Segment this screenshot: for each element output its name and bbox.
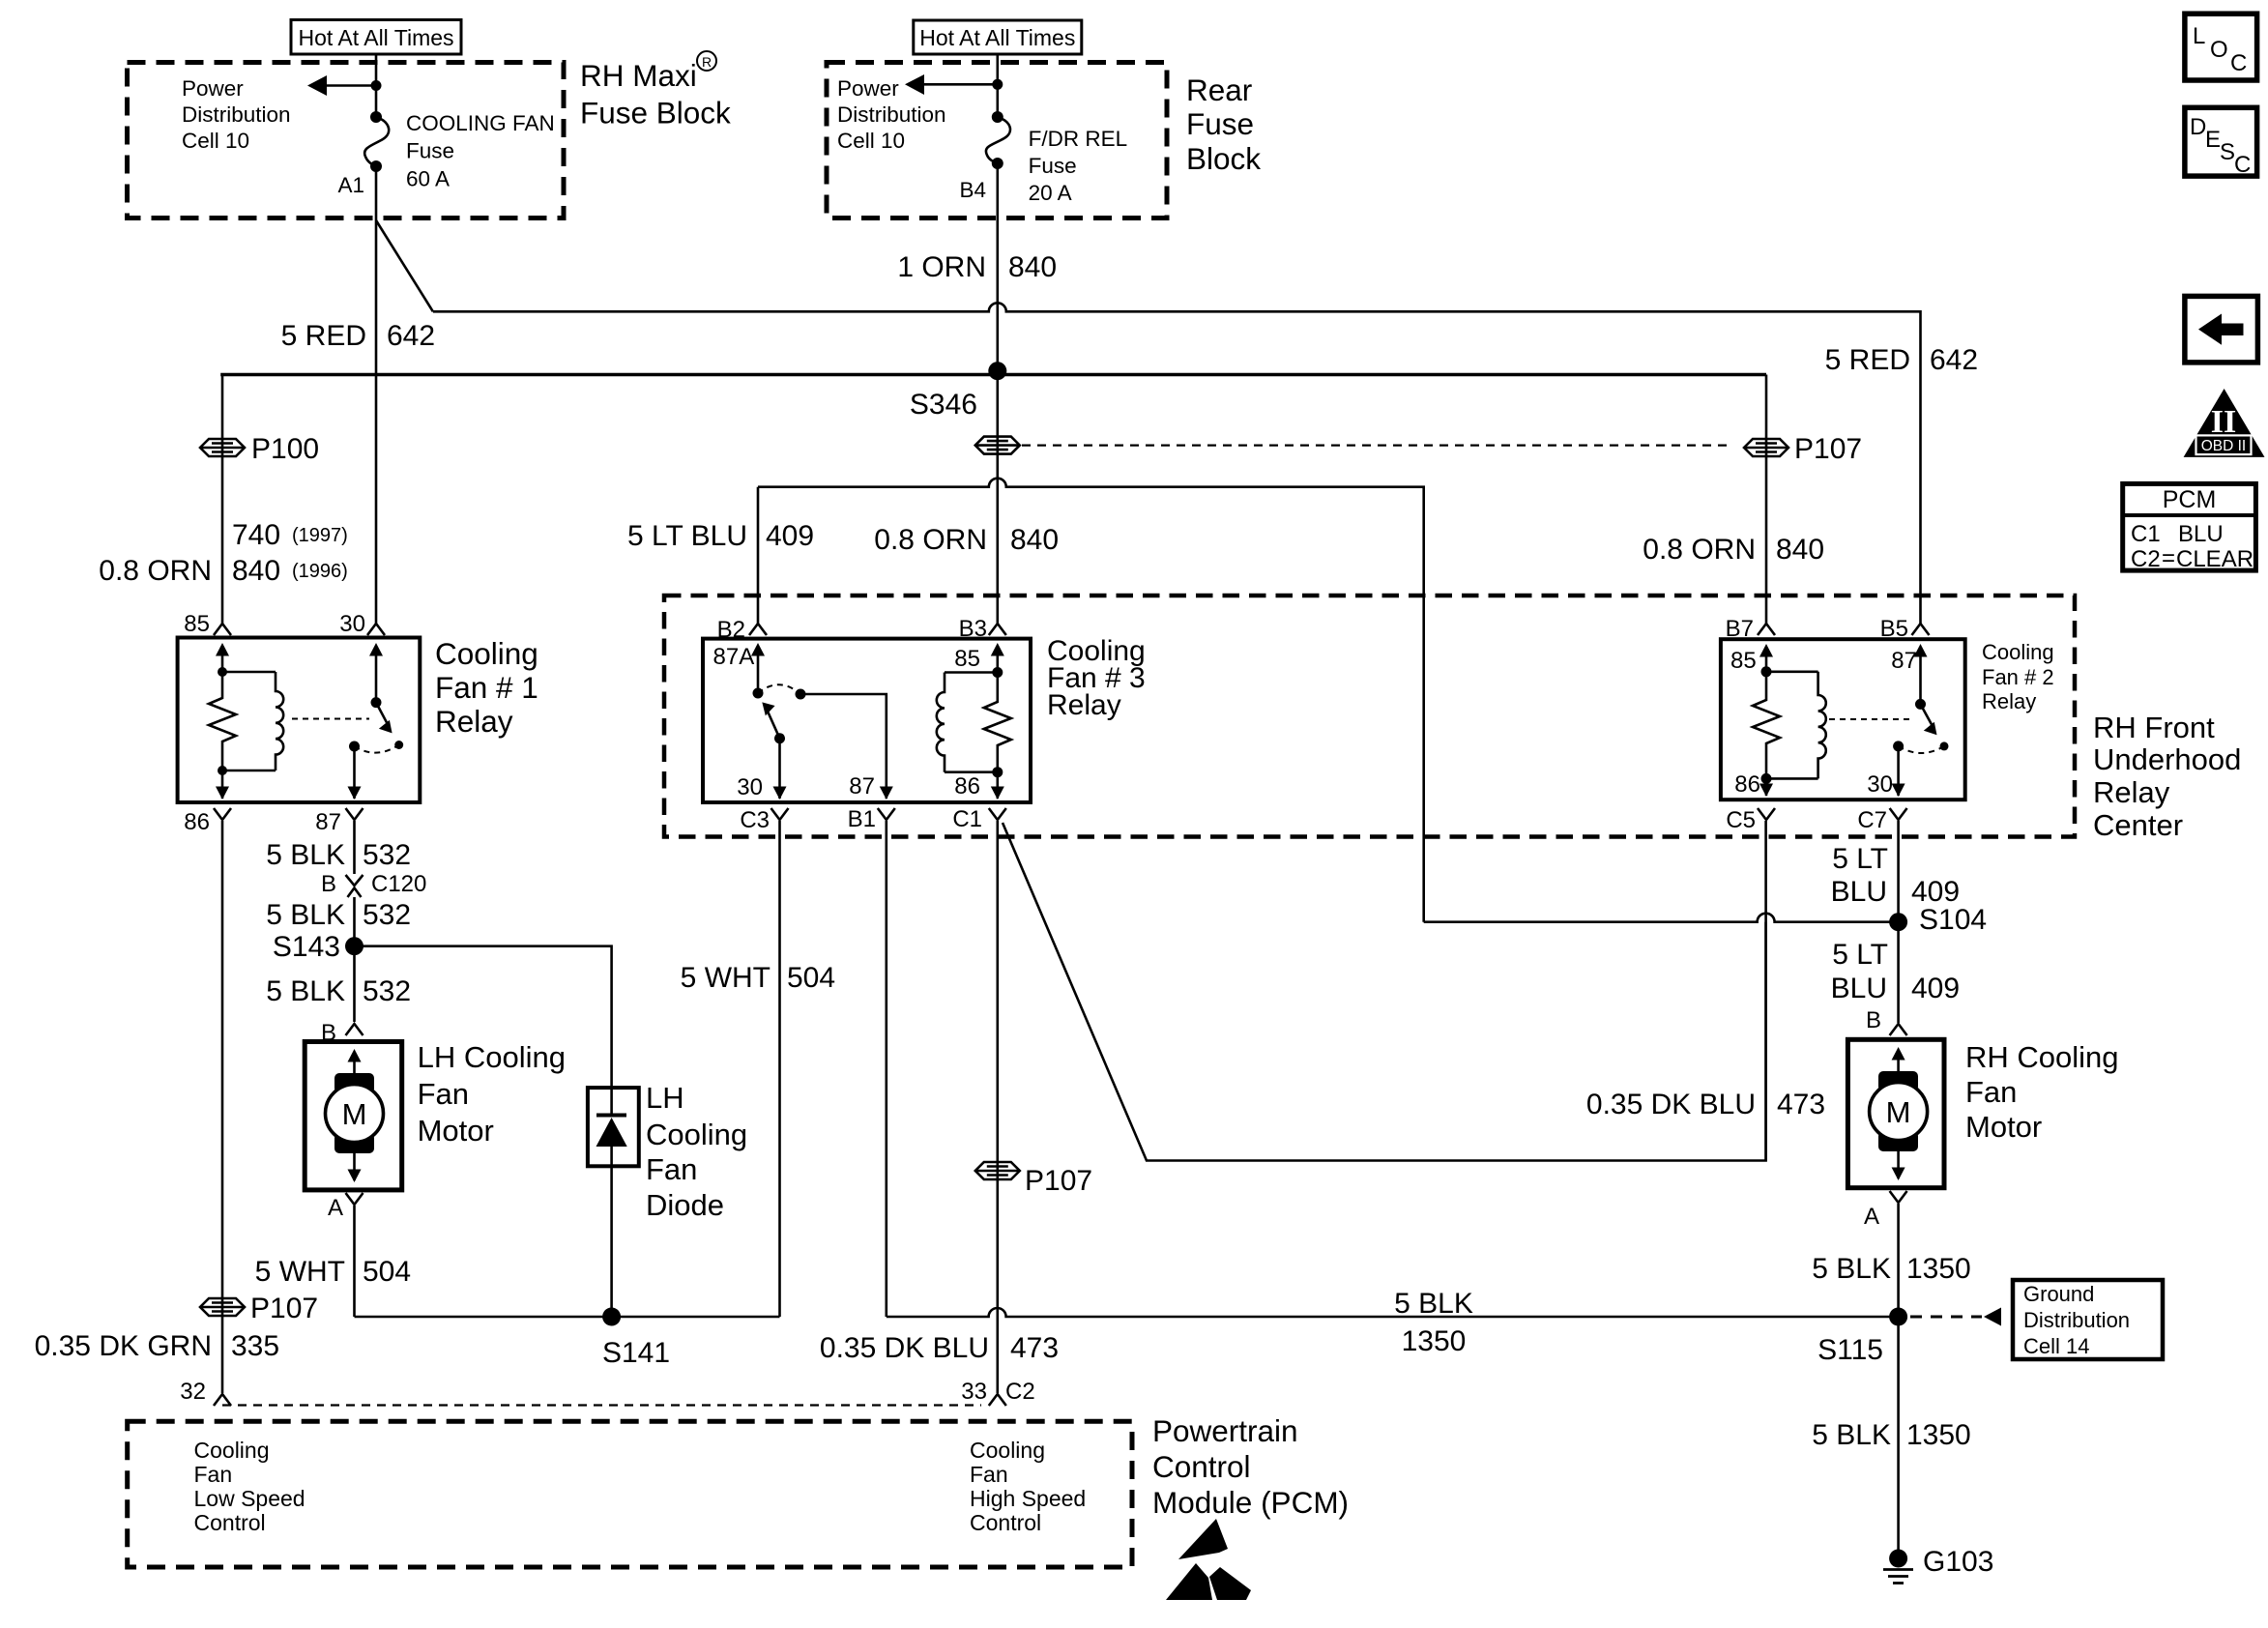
RH motor internals [1870,1047,1928,1180]
label 0.35 DK BLU | 473 (on C5 wire) [1586,1089,1825,1120]
svg-text:CLEAR: CLEAR [2176,546,2253,572]
svg-text:S346: S346 [910,389,977,421]
relay 3 pin 30 line [737,739,786,800]
svg-text:LH Cooling: LH Cooling [418,1040,566,1074]
svg-text:504: 504 [363,1256,411,1288]
svg-text:Fan # 2: Fan # 2 [1982,665,2054,689]
label 1 ORN | 840 [897,251,1057,283]
Ground Distribution Cell 14 box [2013,1280,2163,1359]
relay 3 pin 85 line with arrow [954,643,1004,678]
ground G103 [1883,1546,1993,1584]
svg-text:33: 33 [961,1379,987,1405]
Hot At All Times label box 2 [914,20,1082,54]
svg-text:85: 85 [954,646,980,672]
relay 1 resistor [209,672,236,770]
pin B1 terminal [848,806,895,832]
pin 32 terminal [180,1379,231,1406]
wire A down to S115 [1897,1204,1900,1317]
wire drop to P100 [221,375,224,438]
label 5 BLK | 1350 (upper) [1812,1253,1970,1285]
text Power Distribution Cell 10 [837,76,946,153]
pin C3 terminal [740,807,788,833]
svg-text:Ground: Ground [2023,1282,2094,1306]
pin C1 terminal [952,806,1005,832]
wire down to G103 [1897,1317,1900,1551]
svg-text:E: E [2205,127,2221,153]
relay 3 resistor [984,673,1011,772]
label 0.8 ORN | 840 (B3) [874,524,1059,556]
relay 1 NO contact and 87 line [348,741,362,800]
wire 87 continues below C120 [353,897,356,1022]
svg-text:60 A: 60 A [406,166,450,190]
svg-text:5 BLK: 5 BLK [1812,1419,1891,1451]
svg-text:Cooling: Cooling [435,636,538,671]
relay 1 coil bottom dot and 86 arrow [216,766,229,799]
svg-text:Relay: Relay [1982,689,2036,713]
svg-text:A1: A1 [337,173,364,197]
RH Front Underhood Relay Center dashed box [664,596,2075,837]
LH motor internals [326,1049,384,1182]
relay 2 box [1721,639,1965,799]
dashed connector link line to P107 [1022,445,1730,447]
svg-text:Hot At All Times: Hot At All Times [919,25,1075,50]
wire A1 vertical down to relay 1 pin 30 [375,166,378,624]
text LH Cooling Fan Motor [418,1040,566,1148]
svg-text:87: 87 [315,809,341,835]
svg-text:5 LT BLU: 5 LT BLU [627,520,747,552]
svg-text:Control: Control [970,1510,1041,1535]
OBD II triangle [2184,389,2265,457]
svg-text:87A: 87A [713,644,755,670]
text Powertrain Control Module (PCM) [1152,1413,1349,1520]
label 5 BLK 1350 (long run to S115) [1394,1288,1473,1357]
pin A terminal of LH motor [328,1193,363,1221]
pin B5 terminal [1880,616,1930,642]
svg-text:85: 85 [184,611,210,637]
svg-text:BLU: BLU [2178,521,2224,547]
svg-text:High Speed: High Speed [970,1486,1086,1511]
RH Maxi fuse block dashed box [128,63,565,218]
svg-text:0.35 DK BLU: 0.35 DK BLU [1586,1089,1756,1120]
svg-text:O: O [2210,37,2228,63]
svg-text:BLU: BLU [1831,876,1887,908]
svg-text:C120: C120 [371,871,426,897]
label 0.35 DK GRN | 335 [35,1330,279,1362]
svg-text:532: 532 [363,839,411,871]
svg-text:Cooling: Cooling [194,1438,270,1463]
svg-text:5 BLK: 5 BLK [266,899,345,931]
wire diagonal branch from A1 [376,220,433,311]
relay 3 box [703,639,1031,802]
label 5 LT BLU 409 (upper) [1831,843,1960,908]
splice S141 [602,1308,670,1370]
wire thin horizontal 5 RED 642 to B5 (hop over 1 ORN wire) [433,303,1921,624]
svg-text:RH Maxi: RH Maxi [580,58,697,93]
svg-text:M: M [342,1097,367,1131]
svg-text:Rear: Rear [1186,73,1252,107]
wire thick bus 5 RED 642 [220,373,1766,377]
PCM dashed box [128,1421,1132,1567]
svg-text:Center: Center [2093,808,2183,842]
left arrow icon box [2185,296,2258,363]
wire A1 fuse-block vertical [375,54,378,117]
fuse COOLING FAN 60A [364,111,389,172]
relay 1 coil [222,672,283,770]
ESD symbol [1166,1519,1251,1600]
svg-text:Cooling: Cooling [970,1438,1045,1463]
svg-text:Cell 10: Cell 10 [837,129,905,153]
wire C7 vertical down to RH motor [1897,821,1900,1023]
svg-text:87: 87 [849,773,875,799]
wire S143 branch to diode [355,946,612,1088]
svg-text:Control: Control [194,1510,266,1535]
svg-text:Distribution: Distribution [837,102,946,127]
svg-text:C: C [2234,152,2251,178]
svg-text:86: 86 [1734,771,1760,798]
svg-text:Motor: Motor [418,1114,494,1148]
pin B terminal of RH motor [1866,1007,1907,1035]
text LH Cooling Fan Diode [646,1081,747,1222]
power distribution arrow [307,75,382,96]
wire S141 horizontal (A wire to C3 wire) [355,1316,780,1319]
relay 1 switch blade [376,703,403,749]
wire horizontal B2 to right corner (hops 0.8 ORN wire) [758,479,1424,922]
svg-text:5 LT: 5 LT [1832,843,1888,875]
svg-text:R: R [702,54,712,70]
svg-text:30: 30 [339,611,365,637]
relay 2 resistor [1753,672,1780,779]
wire B2 vertical from horizontal to terminal [757,487,760,624]
connector symbol on 1 ORN wire below S346 [975,371,1020,624]
svg-text:Fuse: Fuse [1029,154,1077,178]
label 0.35 DK BLU | 473 (bottom) [820,1332,1059,1364]
text Power Distribution Cell 10 [182,76,291,153]
relay 1 actuator dashed line [292,718,369,720]
wire S104 horizontal (hop over C5 wire) [1424,914,1899,922]
relay 2 bottom dot and 86 arrow [1734,771,1773,798]
svg-text:0.35 DK BLU: 0.35 DK BLU [820,1332,989,1364]
power distribution arrow 2 [905,74,1003,95]
relay 1 switch: pin 30 line and hinge [369,643,383,708]
svg-text:85: 85 [1730,648,1757,674]
svg-text:5 BLK: 5 BLK [1812,1253,1891,1285]
svg-text:840: 840 [1008,251,1057,283]
svg-text:A: A [1864,1204,1879,1230]
wire C3 vertical down to S141 line [778,821,781,1317]
svg-text:5 RED: 5 RED [281,320,366,352]
splice S104 [1889,904,1987,936]
diode symbol [596,1088,627,1317]
svg-text:Relay: Relay [1047,689,1121,721]
pin 87 terminal [315,808,363,835]
svg-text:L: L [2193,23,2205,49]
label 740 (1997) [232,519,348,551]
text COOLING FAN Fuse 60 A [406,111,555,190]
svg-text:S141: S141 [602,1337,670,1369]
svg-text:P107: P107 [1025,1165,1092,1197]
svg-text:Diode: Diode [646,1188,724,1222]
svg-text:A: A [328,1195,343,1221]
svg-text:86: 86 [184,809,210,835]
relay 2 switch blade [1921,704,1949,750]
text Cooling Fan Low Speed Control [194,1438,305,1535]
svg-text:Distribution: Distribution [182,102,291,127]
svg-text:473: 473 [1010,1332,1059,1364]
label 0.8 ORN | 840 (on B7 wire) [1643,534,1824,566]
svg-text:87: 87 [1891,648,1917,674]
label 5 BLK | 1350 (lower) [1812,1419,1970,1451]
svg-text:=: = [2162,545,2175,571]
svg-text:Distribution: Distribution [2023,1308,2130,1332]
connector P107 middle [975,1162,1092,1197]
svg-text:5 BLK: 5 BLK [266,975,345,1007]
svg-text:Cell 10: Cell 10 [182,129,249,153]
text Cooling Fan High Speed Control [970,1438,1086,1535]
svg-text:(1996): (1996) [292,561,348,582]
svg-text:5 RED: 5 RED [1825,344,1910,376]
svg-text:COOLING FAN: COOLING FAN [406,111,555,135]
svg-text:Fuse: Fuse [406,139,454,163]
svg-text:RH Cooling: RH Cooling [1965,1040,2119,1074]
svg-text:Fuse Block: Fuse Block [580,95,731,130]
svg-text:Power: Power [837,76,899,101]
svg-text:G103: G103 [1923,1546,1993,1578]
svg-text:C2: C2 [1005,1379,1035,1405]
svg-text:Low Speed: Low Speed [194,1486,305,1511]
relay 2 coil (right branch) [1766,672,1826,779]
wire C5 vertical down then left to DK BLU run [1764,821,1767,1161]
connector P107 right on B7 wire [1744,433,1862,465]
svg-text:Hot At All Times: Hot At All Times [298,25,453,50]
pin 33 | C2 terminal [961,1379,1034,1406]
text RH Cooling Fan Motor [1965,1040,2119,1144]
svg-text:RH Front: RH Front [2093,711,2215,744]
pin C7 terminal [1857,807,1906,833]
label 0.8 ORN | 840 (1996) [99,555,348,587]
DESC icon box [2185,107,2257,178]
LH Cooling Fan Motor box [305,1042,402,1190]
svg-text:Control: Control [1152,1449,1251,1484]
svg-text:B: B [1866,1007,1881,1033]
svg-text:532: 532 [363,899,411,931]
relay 2 NO contact and pin 30 line [1867,741,1905,798]
svg-text:5 WHT: 5 WHT [255,1256,345,1288]
dashed link pin32 to pin33 [222,1404,981,1406]
text Rear Fuse Block [1186,73,1261,176]
svg-text:840: 840 [232,555,280,587]
relay 2 dashed travel arc [1899,746,1944,753]
svg-text:B4: B4 [959,178,986,202]
svg-text:5 BLK: 5 BLK [266,839,345,871]
svg-text:C2: C2 [2131,546,2161,572]
svg-text:740: 740 [232,519,280,551]
text Cooling Fan # 3 Relay [1047,635,1146,721]
dashed link S115 to Ground Distribution [1910,1308,2001,1326]
PCM connector table [2123,483,2256,572]
splice S115 [1817,1308,1907,1367]
svg-text:30: 30 [737,774,763,800]
relay 2 actuator dashed line [1829,718,1912,720]
svg-text:LH: LH [646,1081,684,1115]
svg-text:PCM: PCM [2163,486,2217,513]
label 5 RED | 642 (left) [281,320,435,352]
pin B2 terminal [717,617,767,643]
svg-text:Module (PCM): Module (PCM) [1152,1485,1349,1520]
wire A down to S141 line [353,1206,356,1317]
svg-text:0.35 DK GRN: 0.35 DK GRN [35,1330,212,1362]
svg-text:Cooling: Cooling [646,1118,747,1151]
svg-text:B: B [321,871,336,897]
fuse F/DR REL 20A [986,111,1010,169]
text RH Maxi (R) Fuse Block [580,51,731,130]
wire C1 vertical down to PCM pin 33 [997,821,1000,1393]
pin 86 terminal [184,808,231,835]
wire B4 fuse-block vertical [997,54,1000,117]
label 5 WHT | 504 (left) [255,1256,411,1288]
svg-text:532: 532 [363,975,411,1007]
pin A terminal of RH motor [1864,1191,1907,1230]
svg-text:OBD II: OBD II [2201,438,2247,454]
svg-text:S115: S115 [1817,1334,1883,1366]
svg-text:S: S [2220,139,2235,165]
wire 87 vertical with C120 inline connector [353,821,356,874]
svg-text:86: 86 [954,773,980,799]
svg-text:C1: C1 [952,806,982,832]
Rear fuse block dashed box [827,63,1167,218]
relay 2 pin 85 line [1730,644,1773,677]
connector P100 [200,433,319,465]
label 5 LT BLU 409 (lower) [1831,939,1960,1004]
svg-text:Motor: Motor [1965,1110,2042,1144]
svg-text:C3: C3 [740,807,770,833]
label 5 BLK | 532 (above C120) [266,839,411,871]
wire B7 drop [1765,375,1768,625]
pin 85 terminal [184,611,231,637]
svg-text:Fan: Fan [418,1077,469,1111]
svg-text:473: 473 [1777,1089,1825,1120]
relay 3 coil (left branch) [937,673,998,772]
svg-text:Powertrain: Powertrain [1152,1413,1298,1448]
svg-text:642: 642 [387,320,435,352]
svg-text:C1: C1 [2131,521,2161,547]
svg-text:20 A: 20 A [1029,181,1072,205]
wire 86 left vertical down to PCM pin 32 [221,821,224,1393]
label 5 LT BLU | 409 [627,520,814,552]
svg-text:Fan: Fan [1965,1075,2017,1109]
svg-text:M: M [1886,1095,1911,1129]
svg-text:(1997): (1997) [292,525,348,546]
wire B1 horizontal to S115 (hop over C1 wire) [887,1308,1899,1317]
label 5 WHT | 504 (right of S143, on C3 wire) [681,962,835,994]
svg-text:C5: C5 [1726,807,1756,833]
svg-text:32: 32 [180,1379,206,1405]
label 5 BLK | 532 (third) [266,975,411,1007]
wire 0.8 ORN down to relay1 pin 85 [221,437,224,624]
LOC icon box [2185,14,2257,80]
svg-text:Power: Power [182,76,244,101]
text RH Front Underhood Relay Center [2093,711,2241,842]
LH Cooling Fan Diode box [588,1088,639,1166]
wire B1 vertical [885,821,887,1317]
svg-text:5 BLK: 5 BLK [1394,1288,1473,1320]
Hot At All Times label box 1 [291,20,461,55]
svg-text:Cooling: Cooling [1982,640,2054,664]
relay 1 dashed travel arc [355,745,399,753]
svg-text:335: 335 [231,1330,279,1362]
svg-text:0.8 ORN: 0.8 ORN [874,524,987,556]
svg-text:P100: P100 [251,433,319,465]
svg-text:409: 409 [1911,973,1960,1004]
relay 3 bottom dot and 86 arrow [954,767,1004,799]
splice S143 [273,931,363,963]
svg-text:C: C [2230,50,2247,76]
wire 1 ORN 840 vertical from B4 to S346 [997,163,1000,371]
splice S346 [910,362,1006,421]
svg-text:Underhood: Underhood [2093,742,2241,776]
relay 3 floating contact to pin 87 [796,689,893,800]
svg-text:F/DR REL: F/DR REL [1029,127,1128,151]
svg-text:5 WHT: 5 WHT [681,962,771,994]
text Cooling Fan # 1 Relay [435,636,538,739]
svg-text:642: 642 [1930,344,1978,376]
relay 3 switch blade [762,702,785,743]
label 5 RED | 642 (right) [1825,344,1978,376]
svg-text:Fan # 1: Fan # 1 [435,670,538,705]
text Cooling Fan # 2 Relay [1982,640,2054,713]
svg-text:D: D [2190,114,2206,140]
pin B3 terminal [959,616,1006,642]
svg-text:30: 30 [1867,771,1893,798]
svg-text:0.8 ORN: 0.8 ORN [1643,534,1756,566]
svg-text:1350: 1350 [1906,1253,1971,1285]
relay 3 pin 87A line with up arrow [713,643,766,699]
svg-text:1350: 1350 [1402,1325,1467,1357]
svg-text:S143: S143 [273,931,340,963]
label 5 BLK | 532 (below C120) [266,899,411,931]
svg-text:BLU: BLU [1831,973,1887,1004]
text F/DR REL Fuse 20 A [1029,127,1128,205]
svg-text:Relay: Relay [2093,775,2170,809]
relay 2 pin 87 line and hinge [1891,644,1927,710]
relay 1 coil branch: pin 85 line [216,643,229,677]
pin B terminal of LH motor [321,1020,363,1046]
pin B7 terminal [1726,616,1775,642]
wire C1 diagonal to DK BLU run [1003,823,1766,1161]
svg-text:C7: C7 [1857,807,1887,833]
svg-text:840: 840 [1010,524,1059,556]
svg-text:Fuse: Fuse [1186,106,1254,141]
pin 30 terminal [339,611,385,637]
svg-text:S104: S104 [1919,904,1987,936]
svg-text:5 LT: 5 LT [1832,939,1888,971]
svg-text:Cell 14: Cell 14 [2023,1334,2089,1358]
svg-text:B1: B1 [848,806,876,832]
RH Cooling Fan Motor box [1847,1039,1944,1187]
svg-text:1350: 1350 [1906,1419,1971,1451]
pin C5 terminal [1726,807,1775,833]
svg-text:1 ORN: 1 ORN [897,251,986,283]
svg-text:409: 409 [766,520,814,552]
svg-text:0.8 ORN: 0.8 ORN [99,555,212,587]
svg-text:P107: P107 [1794,433,1862,465]
svg-text:Relay: Relay [435,704,513,739]
svg-text:Fan: Fan [194,1462,233,1487]
svg-text:Fan: Fan [970,1462,1008,1487]
relay 3 dashed travel arc [758,684,800,694]
svg-text:504: 504 [787,962,835,994]
inline connector C120 [321,871,426,897]
svg-text:Block: Block [1186,141,1261,176]
